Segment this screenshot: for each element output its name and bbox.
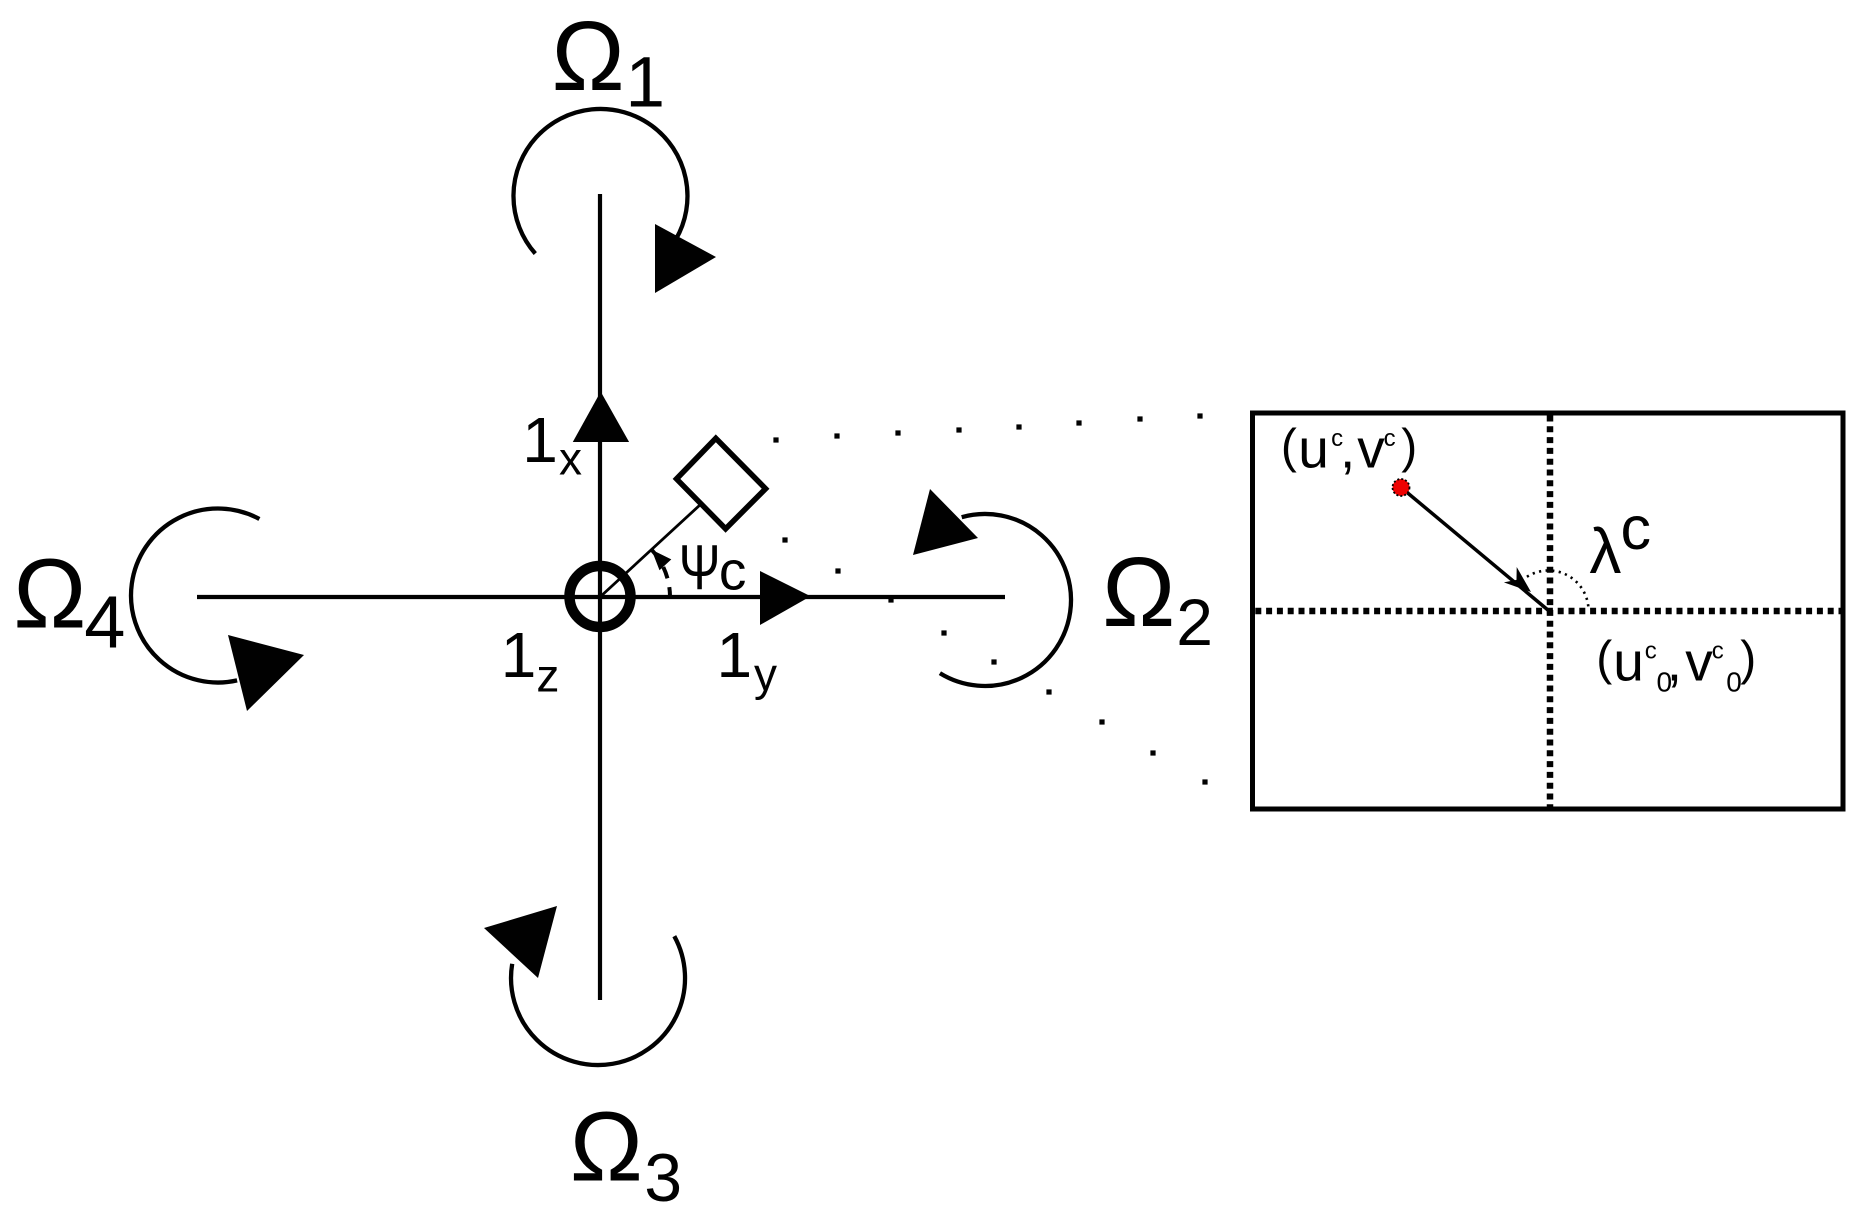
svg-text:): ) xyxy=(1401,421,1417,474)
svg-text:v: v xyxy=(1357,418,1385,480)
svg-text:Ω: Ω xyxy=(1102,537,1175,647)
svg-text:c: c xyxy=(1621,494,1652,562)
svg-text:1: 1 xyxy=(626,43,666,122)
svg-text:λ: λ xyxy=(1589,515,1621,587)
svg-text:,: , xyxy=(1340,418,1355,480)
svg-text:Ψ: Ψ xyxy=(679,533,721,604)
svg-text:c: c xyxy=(1384,425,1396,452)
svg-text:Ω: Ω xyxy=(570,1091,643,1201)
svg-text:(: ( xyxy=(1596,633,1612,686)
svg-text:v: v xyxy=(1685,631,1713,693)
svg-text:c: c xyxy=(1645,638,1657,665)
svg-text:(: ( xyxy=(1281,421,1297,474)
svg-text:): ) xyxy=(1740,633,1756,686)
svg-text:c: c xyxy=(719,540,747,602)
svg-text:1: 1 xyxy=(522,404,558,476)
svg-text:3: 3 xyxy=(644,1140,682,1216)
svg-text:u: u xyxy=(1298,418,1329,480)
svg-text:x: x xyxy=(559,433,582,485)
svg-text:z: z xyxy=(536,649,559,701)
svg-text:,: , xyxy=(1667,631,1682,693)
svg-text:1: 1 xyxy=(717,619,753,691)
svg-text:u: u xyxy=(1613,631,1644,693)
svg-text:y: y xyxy=(754,649,777,701)
svg-text:2: 2 xyxy=(1176,585,1213,659)
svg-text:Ω: Ω xyxy=(13,538,86,648)
svg-text:c: c xyxy=(1712,638,1724,665)
svg-text:Ω: Ω xyxy=(552,1,625,111)
svg-text:1: 1 xyxy=(501,619,537,691)
svg-text:4: 4 xyxy=(84,580,125,663)
